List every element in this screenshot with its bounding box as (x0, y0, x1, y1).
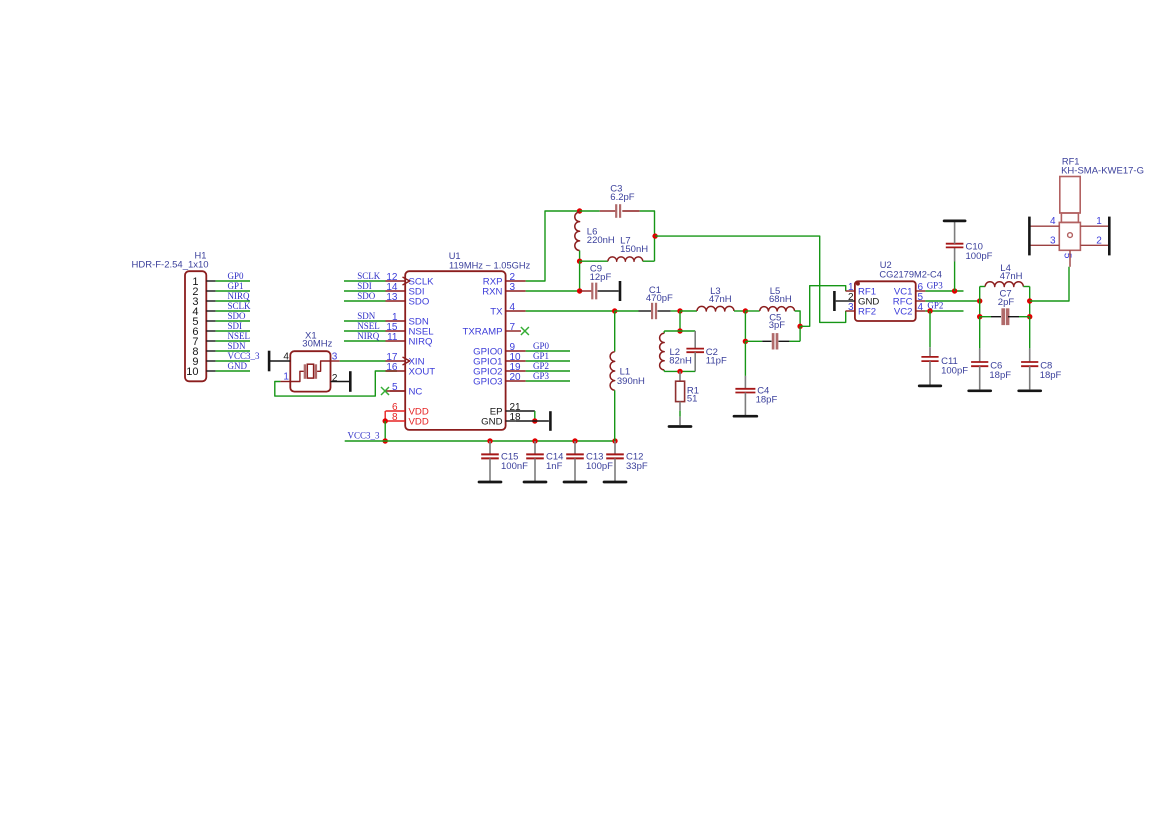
svg-text:51: 51 (687, 394, 698, 405)
svg-text:2pF: 2pF (998, 297, 1015, 308)
RF1 pin 2 (1080, 244, 1110, 246)
svg-text:18pF: 18pF (1040, 370, 1062, 381)
ground at C15 (479, 481, 501, 484)
svg-text:XOUT: XOUT (409, 366, 436, 377)
wire RF1 tap to U2 RF1 pin (800, 286, 846, 327)
svg-text:10: 10 (186, 366, 198, 378)
H1 pin 3 stub (206, 300, 215, 302)
U1 pin 10 GPIO1 (506, 360, 526, 362)
wire L2-C2 bottom rail (664, 370, 695, 372)
svg-text:TXRAMP: TXRAMP (463, 326, 503, 337)
svg-text:GP0: GP0 (533, 341, 550, 351)
svg-text:16: 16 (386, 362, 398, 373)
wire X1 pin 1 to U1 XOUT (275, 371, 397, 396)
no-connect X at U1 NC pin 5 (381, 387, 389, 395)
svg-text:1: 1 (1096, 216, 1102, 227)
svg-text:GPIO3: GPIO3 (473, 376, 502, 387)
svg-text:GND: GND (481, 416, 502, 427)
junction rail at C15 (487, 438, 492, 443)
svg-text:12pF: 12pF (590, 272, 612, 283)
svg-text:33pF: 33pF (626, 461, 648, 472)
ground bar right of RF1 (1108, 217, 1111, 256)
svg-text:HDR-F-2.54_1x10: HDR-F-2.54_1x10 (132, 259, 209, 270)
U2 pin 3 RF2 (846, 310, 855, 312)
junction C7 left (977, 314, 982, 319)
wire H1 pin 5 net SDO (216, 320, 250, 322)
H1 pin 7 stub (206, 340, 215, 342)
wire L7 left (580, 260, 608, 262)
wire L2-C2 top rail (664, 330, 695, 332)
U1 pin 7 TXRAMP (506, 330, 521, 332)
svg-text:18pF: 18pF (756, 394, 778, 405)
svg-text:VCC3_3: VCC3_3 (228, 351, 261, 361)
wire X1 pin 3 to U1 XIN (340, 360, 386, 362)
X1 pin 3 stub (331, 360, 340, 362)
svg-text:82nH: 82nH (669, 356, 692, 367)
svg-text:NC: NC (409, 386, 423, 397)
ground at X1 pin 4 (268, 351, 271, 372)
junction RXP node top (577, 208, 582, 213)
U1 pin 9 GPIO0 (506, 350, 526, 352)
svg-text:GP3: GP3 (533, 371, 550, 381)
svg-text:4: 4 (510, 302, 516, 313)
junction TX at L1 (612, 308, 617, 313)
ground at U1 GND (549, 411, 552, 431)
svg-text:SDN: SDN (357, 311, 376, 321)
H1 pin 8 stub (206, 350, 215, 352)
U1 pin 21 EP (506, 410, 516, 412)
svg-text:4: 4 (1050, 216, 1056, 227)
svg-text:5: 5 (1062, 253, 1073, 259)
svg-text:GP3: GP3 (927, 281, 944, 291)
svg-text:68nH: 68nH (769, 294, 792, 305)
wire U1 SCLK (344, 280, 386, 282)
svg-text:NIRQ: NIRQ (409, 336, 433, 347)
wire U1 NIRQ (344, 340, 386, 342)
wire L3 left (680, 310, 697, 312)
U1 pin 2 RXP (506, 280, 526, 282)
U2 pin 5 RFC (916, 300, 926, 302)
RF1 pin 4 (1030, 225, 1059, 227)
junction C7 right (1027, 314, 1032, 319)
wire U1 TX (526, 310, 615, 312)
svg-text:SDI: SDI (228, 321, 243, 331)
U1 pin 12 SCLK (386, 280, 406, 282)
svg-text:6.2pF: 6.2pF (610, 192, 634, 203)
ground at U2 GND (833, 291, 836, 311)
wire H1 pin 9 net VCC3_3 (216, 360, 250, 362)
wire U1 GPIO net GP3 (526, 380, 570, 382)
U1 pin 13 SDO (386, 300, 406, 302)
capacitor C14 1nF (534, 441, 536, 454)
svg-text:NSEL: NSEL (228, 331, 251, 341)
svg-text:SDN: SDN (228, 341, 247, 351)
svg-text:47nH: 47nH (1000, 271, 1023, 282)
wire L6 bottom (579, 251, 581, 262)
junction RF output node (652, 233, 657, 238)
svg-text:GP1: GP1 (533, 351, 549, 361)
svg-text:GND: GND (228, 361, 248, 371)
svg-text:3: 3 (1050, 236, 1056, 247)
RF1 pin 3 (1030, 244, 1059, 246)
H1 pin 10 stub (206, 370, 215, 372)
svg-text:SDI: SDI (357, 281, 372, 291)
wire U1 SDI (344, 290, 386, 292)
svg-text:SCLK: SCLK (357, 271, 381, 281)
wire VCC3_3 rail (345, 440, 615, 442)
wire VC2 net GP2 (925, 310, 963, 312)
junction C5 left (743, 339, 748, 344)
ground at C11 (919, 385, 941, 388)
ground at C8 (1019, 389, 1041, 392)
U1 pin 18 GND (506, 420, 516, 422)
junction RXN node (577, 288, 582, 293)
wire down to C5 right (799, 326, 801, 341)
no-connect X at U1 TXRAMP (521, 327, 529, 335)
wire U1 RXN (526, 290, 580, 292)
svg-text:220nH: 220nH (587, 235, 615, 246)
junction L3-L5 node (743, 308, 748, 313)
svg-text:NIRQ: NIRQ (357, 331, 379, 341)
H1 pin 5 stub (206, 320, 215, 322)
U1 pin 15 NSEL (386, 330, 406, 332)
svg-text:U2: U2 (880, 260, 892, 270)
junction L2-C2 top (677, 328, 682, 333)
wire H1 pin 4 net SCLK (216, 310, 250, 312)
svg-text:100pF: 100pF (586, 461, 613, 472)
wire right node vertical (1029, 287, 1031, 317)
wire RFC to L4/C7 left node (925, 300, 979, 302)
svg-text:GP2: GP2 (533, 361, 549, 371)
wire H1 pin 2 net GP1 (216, 290, 250, 292)
RF1 pin 5 lead (1069, 250, 1071, 266)
svg-text:470pF: 470pF (646, 293, 673, 304)
svg-text:1nF: 1nF (546, 461, 563, 472)
ground at C6 (969, 389, 991, 392)
svg-text:8: 8 (392, 412, 398, 423)
U1 pin 4 TX (506, 310, 526, 312)
wire X1 pin 4 to ground (269, 360, 290, 362)
svg-text:NIRQ: NIRQ (228, 291, 250, 301)
U2 pin 2 GND (846, 300, 855, 302)
H1 pin 1 stub (206, 280, 215, 282)
junction EP-GND (532, 418, 537, 423)
wire U1 SDO (344, 300, 386, 302)
svg-text:100nF: 100nF (501, 461, 528, 472)
junction L6-L7 node (577, 259, 582, 264)
ground at C4 (734, 415, 757, 418)
wire long run to U2 RF2 (655, 236, 846, 322)
ground bar left of RF1 (1028, 217, 1031, 256)
svg-text:11: 11 (387, 332, 398, 343)
capacitor C15 100nF (489, 441, 491, 454)
U1 pin 14 SDI (386, 290, 406, 292)
junction rail at C14 (532, 438, 537, 443)
wire U1 GPIO net GP1 (526, 360, 570, 362)
junction RF1 tap (797, 324, 802, 329)
svg-text:2: 2 (1096, 236, 1102, 247)
capacitor C13 100pF (574, 441, 576, 454)
svg-text:2: 2 (332, 373, 338, 384)
svg-text:100pF: 100pF (941, 366, 968, 377)
wire U1 RXP up to matching network (526, 211, 580, 281)
svg-text:KH-SMA-KWE17-G: KH-SMA-KWE17-G (1061, 166, 1144, 177)
wire C1 to tank node (671, 310, 680, 312)
svg-text:TX: TX (490, 306, 503, 317)
svg-text:SCLK: SCLK (228, 301, 252, 311)
junction TX tank node (677, 308, 682, 313)
ground at C9 (619, 281, 622, 301)
U1 pin 17 XIN (386, 360, 406, 362)
svg-text:GP0: GP0 (228, 271, 245, 281)
svg-text:GP1: GP1 (228, 281, 244, 291)
wire tank node down (679, 311, 681, 331)
svg-text:18pF: 18pF (989, 370, 1011, 381)
ground at R1 (669, 425, 691, 428)
U2 pin 6 VC1 (916, 290, 926, 292)
wire TX node to C1 (615, 310, 639, 312)
U1 pin 11 NIRQ (386, 340, 406, 342)
U1 pin 5 NC (386, 390, 406, 392)
svg-text:13: 13 (386, 292, 398, 303)
junction VCC3_3 rail at VDD (383, 438, 388, 443)
wire L5 left (745, 310, 759, 312)
wire U1 GPIO net GP0 (526, 350, 570, 352)
wire left node vertical (979, 287, 981, 317)
capacitor C12 33pF (614, 441, 616, 454)
wire L5 right corner down (795, 311, 801, 326)
wire L6-L7 node down to RXN (579, 261, 581, 291)
U1 pin 3 RXN (506, 290, 526, 292)
U1 pin 8 VDD (386, 420, 406, 422)
svg-text:VDD: VDD (409, 416, 429, 427)
svg-text:3: 3 (510, 282, 516, 293)
H1 pin 2 stub (206, 290, 215, 292)
wire U1 GPIO net GP2 (526, 370, 570, 372)
ground at C13 (564, 481, 586, 484)
H1 pin 9 stub (206, 360, 215, 362)
svg-text:NSEL: NSEL (357, 321, 380, 331)
svg-text:SDO: SDO (228, 311, 247, 321)
svg-text:150nH: 150nH (620, 244, 648, 255)
svg-text:7: 7 (510, 322, 516, 333)
svg-text:4: 4 (918, 302, 924, 313)
junction L2-C2 bottom (677, 369, 682, 374)
wire H1 pin 3 net NIRQ (216, 300, 250, 302)
wire H1 pin 6 net SDI (216, 330, 250, 332)
wire H1 pin 7 net NSEL (216, 340, 250, 342)
wire right node to RF1 pin 5 (1030, 267, 1069, 301)
wire U1 EP to GND tie (516, 410, 535, 412)
junction rail at C13 (572, 438, 577, 443)
wire VDD pins 6-8 tie (384, 411, 386, 421)
U1 pin 19 GPIO2 (506, 370, 526, 372)
svg-text:20: 20 (510, 372, 522, 383)
junction VDD pin8 (383, 418, 388, 423)
wire U1 NSEL (344, 330, 386, 332)
wire U2 GND to ground bar (836, 300, 846, 302)
svg-text:119MHz ~ 1.05GHz: 119MHz ~ 1.05GHz (449, 260, 531, 270)
H1 pin 4 stub (206, 310, 215, 312)
wire X1 pin 2 to ground (331, 381, 351, 383)
wire U1 SDN (344, 320, 386, 322)
H1 pin 6 stub (206, 330, 215, 332)
svg-text:100pF: 100pF (966, 251, 993, 262)
svg-text:SDO: SDO (409, 296, 430, 307)
svg-text:VC2: VC2 (894, 306, 913, 317)
svg-text:RF2: RF2 (858, 306, 876, 317)
ground at C14 (524, 481, 546, 484)
wire H1 pin 1 net GP0 (216, 280, 250, 282)
wire VC1 net GP3 (925, 290, 963, 292)
svg-text:47nH: 47nH (709, 294, 732, 305)
ground at C12 (604, 481, 626, 484)
ground at X1 pin 2 (349, 371, 352, 392)
junction rail at C12 (612, 438, 617, 443)
wire VDD to VCC3_3 rail (384, 421, 386, 441)
wire top node to C3 (580, 210, 600, 212)
wire H1 pin 10 net GND (216, 370, 250, 372)
X1 pin 1 stub (280, 381, 290, 383)
wire node down to C5 branch (744, 311, 746, 341)
svg-text:3pF: 3pF (769, 320, 786, 331)
crystal X1 internal symbol (304, 364, 306, 379)
U2 pin 1 RF1 (846, 290, 855, 292)
svg-text:CG2179M2-C4: CG2179M2-C4 (879, 270, 942, 280)
wire C3 to right corner (640, 211, 655, 236)
svg-text:11pF: 11pF (706, 356, 727, 367)
wire H1 pin 8 net SDN (216, 350, 250, 352)
U2 pin 4 VC2 (916, 310, 926, 312)
U1 pin 20 GPIO3 (506, 380, 526, 382)
U2 pin 1 marker (856, 282, 860, 286)
svg-text:30MHz: 30MHz (302, 339, 332, 350)
wire L3 right (734, 310, 745, 312)
svg-text:390nH: 390nH (617, 376, 645, 387)
svg-text:SDO: SDO (357, 291, 376, 301)
wire U1 GND to ground (516, 420, 549, 422)
U1 NC pin 5 stub (390, 390, 405, 392)
junction RFC left node (977, 298, 982, 303)
junction VC2 at C11 (927, 308, 932, 313)
svg-text:3: 3 (848, 302, 854, 313)
RF1 pin 1 (1080, 225, 1110, 227)
junction VC1 at C10 (952, 288, 957, 293)
svg-text:VCC3_3: VCC3_3 (348, 431, 381, 441)
wire L7 right up to node (643, 260, 655, 262)
junction RFC right node (1027, 298, 1032, 303)
svg-text:RXN: RXN (482, 286, 502, 297)
U1 pin 1 SDN (386, 320, 406, 322)
U1 pin 6 VDD (386, 410, 406, 412)
ground at C10 (top) (944, 220, 965, 223)
U1 pin 16 XOUT (386, 370, 406, 372)
